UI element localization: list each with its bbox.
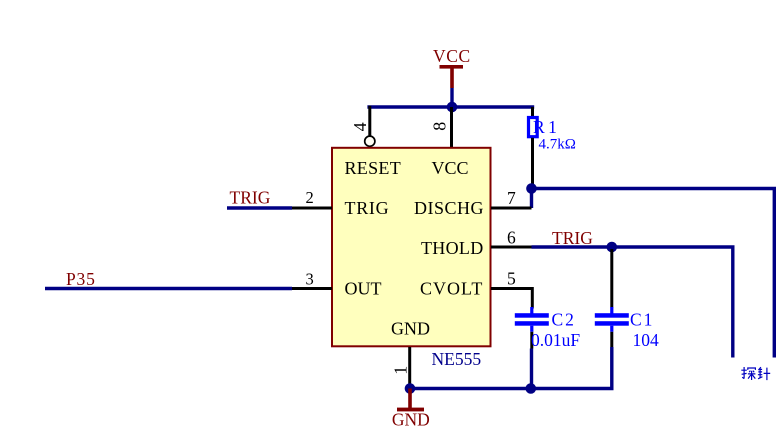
- pin 6 (THOLD): [491, 246, 532, 249]
- VCC power symbol: [433, 46, 471, 88]
- svg-text:104: 104: [633, 330, 660, 350]
- probe label 探针 (drawn strokes): [741, 367, 755, 380]
- svg-text:GND: GND: [391, 319, 430, 339]
- pin 2 (TRIG): [291, 207, 332, 210]
- svg-text:4: 4: [350, 122, 370, 131]
- svg-text:P35: P35: [66, 269, 96, 289]
- wire THOLD net to right probe: [532, 247, 735, 358]
- capacitor C2: [515, 307, 549, 349]
- svg-text:6: 6: [507, 227, 516, 247]
- svg-text:VCC: VCC: [433, 46, 471, 66]
- wire TRIG net: [227, 206, 292, 209]
- svg-text:3: 3: [306, 270, 314, 289]
- IC NE555 body: [332, 148, 491, 346]
- svg-text:C1: C1: [630, 310, 654, 330]
- svg-text:1: 1: [390, 366, 410, 375]
- junction node DISCHG/R1: [526, 183, 537, 194]
- svg-text:TRIG: TRIG: [230, 187, 271, 207]
- ground symbol GND: [392, 389, 430, 430]
- svg-text:0.01uF: 0.01uF: [531, 330, 580, 350]
- capacitor C1: [595, 249, 629, 347]
- pin 1 (GND): [408, 347, 411, 389]
- wire R1 node down to pin 7: [530, 189, 533, 209]
- pin 4 (RESET pin, inverted): [368, 106, 371, 136]
- svg-text:DISCHG: DISCHG: [414, 198, 484, 218]
- svg-text:OUT: OUT: [345, 278, 382, 298]
- svg-text:RESET: RESET: [345, 158, 402, 178]
- pin 5 (CVOLT): [491, 289, 532, 309]
- wire DISCHG node to right probe: [532, 189, 775, 358]
- junction VCC node: [447, 102, 458, 113]
- svg-text:R1: R1: [533, 117, 560, 137]
- svg-text:7: 7: [507, 188, 516, 208]
- junction node GND/pin1: [405, 383, 416, 394]
- wire VCC stub: [450, 88, 453, 105]
- svg-text:8: 8: [430, 122, 450, 131]
- pin 8 (VCC pin): [450, 107, 453, 147]
- svg-text:4.7kΩ: 4.7kΩ: [539, 137, 576, 153]
- pin 7 (DISCHG): [491, 207, 532, 210]
- svg-text:NE555: NE555: [432, 349, 482, 369]
- wire ground rail: [410, 347, 612, 389]
- svg-text:C2: C2: [552, 310, 576, 330]
- svg-text:TRIG: TRIG: [552, 228, 593, 248]
- junction node C2/ground rail: [526, 383, 537, 394]
- svg-text:TRIG: TRIG: [345, 198, 390, 218]
- svg-text:VCC: VCC: [431, 158, 468, 178]
- svg-text:CVOLT: CVOLT: [420, 278, 483, 298]
- wire C2 to ground rail: [530, 349, 533, 389]
- resistor R1: [529, 107, 538, 185]
- svg-text:2: 2: [306, 188, 314, 207]
- wire VCC top rail: [367, 105, 534, 108]
- svg-text:5: 5: [507, 269, 516, 289]
- pin 3 (OUT): [291, 287, 332, 290]
- svg-text:GND: GND: [392, 409, 430, 429]
- junction node THOLD/C1: [607, 242, 618, 253]
- svg-text:THOLD: THOLD: [421, 238, 484, 258]
- wire P35 net: [45, 287, 292, 290]
